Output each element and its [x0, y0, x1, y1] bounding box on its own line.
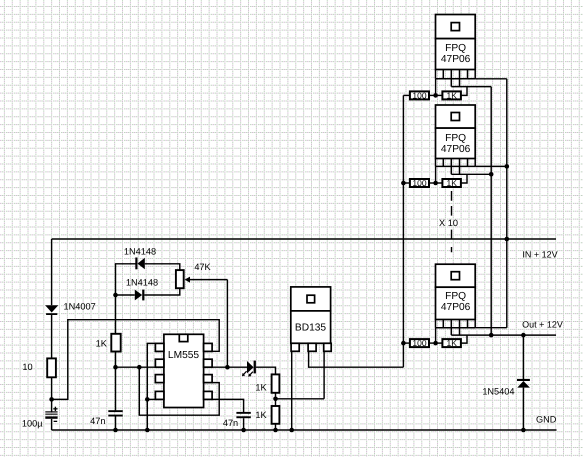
- dashed multiplier line: [451, 191, 453, 252]
- svg-text:1N4148: 1N4148: [126, 278, 158, 288]
- net Out +12V rail: [451, 334, 556, 336]
- resistor 1K of Q3: [442, 339, 461, 347]
- wire D2 to pot bottom: [144, 288, 179, 295]
- svg-text:FPQ: FPQ: [445, 43, 466, 54]
- junction gate node Q2: [429, 182, 442, 184]
- wire 555 pin4 reset: [147, 398, 155, 400]
- capacitor C2 47n: [108, 367, 122, 430]
- wire timing node to D2 branch: [116, 294, 135, 296]
- svg-text:1K: 1K: [446, 91, 457, 101]
- resistor R5 1K lower: [272, 406, 280, 424]
- wire BD135 base down: [323, 351, 325, 399]
- junction gate node Q3: [429, 342, 442, 344]
- LED D5: [242, 361, 256, 377]
- svg-text:100µ: 100µ: [22, 418, 43, 428]
- junction D6 on GND: [521, 428, 526, 433]
- wire Q1 drain line: [451, 86, 491, 88]
- wire D3 cathode to R10: [51, 315, 53, 358]
- wire 555 pin5 to C3: [212, 399, 244, 412]
- wire Q1 source pin line: [475, 78, 507, 80]
- capacitor C1 100u electrolytic: [45, 399, 57, 430]
- transistor Q4 BD135: [291, 287, 331, 351]
- wire R5 to GND: [275, 424, 277, 430]
- wire D6 to GND: [522, 388, 524, 430]
- svg-text:1K: 1K: [446, 338, 457, 348]
- net GND rail: [52, 429, 557, 431]
- wire Q3 gate down: [435, 328, 437, 343]
- wire Q1 gate down: [435, 79, 437, 96]
- svg-text:FPQ: FPQ: [445, 291, 466, 302]
- svg-text:1K: 1K: [96, 339, 108, 349]
- wire D1 to pot top: [145, 264, 180, 270]
- wire Q2 gate down: [435, 166, 437, 183]
- svg-text:FPQ: FPQ: [445, 133, 466, 144]
- svg-text:X 10: X 10: [439, 218, 458, 228]
- junction R5 on GND: [273, 428, 278, 433]
- wire timing node to D1 branch: [116, 264, 136, 295]
- junction divider node: [273, 397, 278, 402]
- wire THR link pin2 to pin6 under IC: [139, 367, 219, 415]
- svg-text:LM555: LM555: [168, 350, 199, 361]
- svg-text:100: 100: [412, 178, 426, 188]
- wire LED cathode to divider: [256, 367, 276, 374]
- svg-text:47n: 47n: [223, 418, 238, 428]
- wire IN rail corner down to D3 anode: [51, 239, 53, 305]
- wire Q2 1K up to drain line: [461, 174, 467, 183]
- wire Q3 1K up to drain line: [461, 335, 467, 343]
- wire timing node down to R2 1K: [115, 295, 117, 334]
- svg-text:1N4007: 1N4007: [64, 302, 96, 312]
- svg-text:10: 10: [22, 362, 32, 372]
- svg-text:1K: 1K: [255, 410, 267, 420]
- resistor 1K of Q1: [442, 91, 461, 99]
- net drain bus: [490, 87, 492, 336]
- net IN +12V rail: [52, 238, 556, 240]
- svg-text:47K: 47K: [194, 262, 211, 272]
- net source bus: [506, 79, 508, 328]
- junction drain bus on Out rail: [489, 333, 494, 338]
- wire Q2 source pin line: [475, 165, 507, 167]
- diode D6 1N5404: [517, 379, 530, 388]
- transistor Q3 FPQ 47P06 package: [436, 264, 476, 335]
- diode D2 1N4148: [135, 290, 145, 301]
- wire Q2 drain line: [451, 173, 491, 175]
- wire BD135 collector to gate bus: [309, 351, 404, 367]
- transistor Q2 FPQ 47P06 package: [436, 105, 476, 174]
- svg-text:100: 100: [412, 91, 426, 101]
- junction D6 on Out rail: [521, 333, 526, 338]
- wire 555 pin7 to LED: [212, 366, 247, 368]
- net gate bus vertical: [402, 95, 404, 367]
- wire divider node to BD135 base: [276, 398, 325, 400]
- capacitor C3 47n: [236, 412, 250, 430]
- svg-text:47P06: 47P06: [441, 54, 471, 65]
- diode D3 1N4007: [45, 305, 58, 315]
- wire Q1 1K up to drain line: [461, 87, 467, 96]
- wire trigger node to 555 pin2: [116, 366, 156, 368]
- diode D1 1N4148: [135, 258, 145, 270]
- resistor R4 1K upper: [272, 374, 280, 392]
- svg-text:1K: 1K: [255, 382, 267, 392]
- svg-text:1K: 1K: [446, 178, 457, 188]
- junction pin1 line on GND: [145, 428, 150, 433]
- resistor R2 1K: [111, 334, 120, 352]
- resistor 100 of Q3: [403, 342, 410, 344]
- junction gate bus Q2: [401, 181, 406, 186]
- svg-text:100: 100: [412, 338, 426, 348]
- junction C3 on GND: [241, 428, 246, 433]
- svg-text:47P06: 47P06: [441, 144, 471, 155]
- svg-text:1N5404: 1N5404: [482, 387, 514, 397]
- wire 555 pin1 GND: [147, 343, 155, 430]
- wire Q3 source pin line: [475, 327, 507, 329]
- resistor 1K of Q2: [442, 179, 461, 187]
- resistor 100 of Q2: [403, 182, 410, 184]
- svg-text:1N4148: 1N4148: [124, 247, 156, 257]
- junction wiper on pin7 wire: [225, 365, 230, 370]
- wire BD135 emitter to GND: [291, 351, 293, 430]
- wire Out rail to D6: [522, 335, 524, 379]
- svg-text:47P06: 47P06: [441, 302, 471, 313]
- IC U1 LM555: [155, 334, 212, 407]
- junction pin4: [145, 397, 150, 402]
- junction gate node Q1: [429, 94, 442, 96]
- wire R10 to supply node: [51, 377, 53, 399]
- junction timing node: [113, 293, 118, 298]
- junction gate bus Q3: [401, 341, 406, 346]
- svg-text:47n: 47n: [90, 416, 105, 426]
- svg-text:BD135: BD135: [295, 322, 326, 333]
- junction source bus on IN rail: [505, 237, 510, 242]
- resistor 100 of Q1: [403, 94, 410, 96]
- junction THR link: [137, 365, 142, 370]
- wire pot wiper down to 555 pin7 net: [226, 280, 228, 368]
- svg-text:GND: GND: [536, 415, 557, 425]
- junction Q2 drain on bus: [489, 172, 494, 177]
- transistor Q1 FPQ 47P06 package: [436, 15, 476, 87]
- resistor 10: [47, 358, 56, 377]
- wire VCC feed to 555 pin8: [52, 320, 220, 400]
- wire R2 to trigger node: [115, 352, 117, 368]
- potentiometer 47K: [176, 270, 228, 288]
- junction trigger node: [113, 365, 118, 370]
- svg-text:Out + 12V: Out + 12V: [522, 319, 563, 329]
- junction supply node: [49, 397, 54, 402]
- junction emitter on GND: [289, 428, 294, 433]
- wire divider node: [275, 393, 277, 406]
- junction C2 on GND: [113, 428, 118, 433]
- svg-text:IN + 12V: IN + 12V: [522, 250, 557, 260]
- junction Q2 source on bus: [505, 164, 510, 169]
